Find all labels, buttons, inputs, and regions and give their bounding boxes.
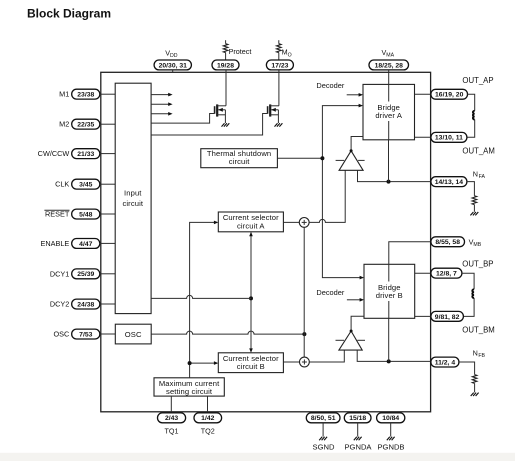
pin pill OUT_BM 9/81,82 bbox=[431, 311, 464, 321]
ground PGNDB bbox=[387, 437, 395, 440]
pin label OSC bbox=[53, 330, 69, 339]
label OUT_BM bbox=[462, 326, 495, 335]
svg-text:3/45: 3/45 bbox=[79, 182, 92, 189]
comparator B bbox=[336, 331, 366, 350]
wire OUT_AM bbox=[415, 136, 431, 138]
svg-text:5/48: 5/48 bbox=[79, 211, 92, 218]
svg-text:22/35: 22/35 bbox=[77, 122, 94, 129]
svg-text:PGNDB: PGNDB bbox=[377, 443, 404, 452]
svg-text:Decoder: Decoder bbox=[316, 288, 344, 297]
label SGND bbox=[313, 443, 335, 452]
resistor protect pull-up bbox=[223, 40, 228, 60]
pin pill Protect 19/28 bbox=[212, 60, 239, 70]
svg-text:20/30, 31: 20/30, 31 bbox=[159, 62, 188, 69]
pin pill OUT_AM 13/10,11 bbox=[431, 132, 467, 142]
comparator A bbox=[336, 151, 365, 171]
wire selector B out bbox=[283, 361, 299, 363]
pin label M1 bbox=[59, 90, 69, 99]
wire thermal output bbox=[277, 157, 322, 159]
ground PGNDA bbox=[354, 437, 362, 440]
arrow decoder A bbox=[347, 93, 363, 97]
pin pill VMA 18/25,28 bbox=[369, 60, 409, 70]
label OUT_AM bbox=[462, 147, 495, 156]
svg-text:CW/CCW: CW/CCW bbox=[38, 149, 70, 158]
block current selector circuit B bbox=[218, 353, 283, 373]
node thermal junction bbox=[320, 156, 324, 160]
svg-text:19/28: 19/28 bbox=[217, 62, 234, 69]
svg-text:OSC: OSC bbox=[125, 330, 142, 339]
wire summing A to B bbox=[303, 227, 305, 357]
footer strip bbox=[0, 453, 515, 461]
wire CLK to input bbox=[100, 183, 115, 185]
wire OUT_AP bbox=[415, 93, 431, 95]
svg-text:15/18: 15/18 bbox=[349, 415, 366, 422]
svg-text:setting circuit: setting circuit bbox=[166, 387, 213, 396]
wire DCY select line bbox=[249, 232, 253, 353]
pin pill OUT_AP 16/19,20 bbox=[431, 89, 468, 99]
wire bridge B sense bbox=[388, 318, 390, 361]
label NFA bbox=[473, 169, 486, 180]
wire control to bridges bbox=[322, 104, 364, 280]
svg-text:TQ1: TQ1 bbox=[165, 427, 179, 436]
label PGNDB bbox=[377, 443, 404, 452]
pin pill NFA 14/13,14 bbox=[431, 177, 467, 187]
pin label CW/CCW bbox=[38, 149, 70, 158]
wire MO drain bbox=[278, 70, 280, 106]
wire comparator A out bbox=[350, 137, 363, 153]
pin pill VMB 8/55,58 bbox=[431, 237, 465, 247]
wire M2 to input bbox=[100, 123, 115, 125]
motor load A bbox=[467, 94, 475, 137]
svg-text:O: O bbox=[288, 52, 292, 58]
svg-text:4/47: 4/47 bbox=[79, 241, 92, 248]
pin pill ENABLE 4/47 bbox=[72, 239, 100, 249]
svg-text:2/43: 2/43 bbox=[165, 415, 178, 422]
label bridge driver A bbox=[373, 102, 405, 122]
summing node B bbox=[300, 357, 310, 367]
wire VMB through bridge B bbox=[388, 264, 390, 318]
svg-text:circuit: circuit bbox=[229, 157, 250, 166]
svg-text:circuit: circuit bbox=[122, 199, 143, 208]
svg-text:OUT_AM: OUT_AM bbox=[462, 147, 495, 156]
arrow input bus 2 bbox=[151, 102, 173, 106]
svg-text:7/53: 7/53 bbox=[79, 331, 92, 338]
svg-text:17/23: 17/23 bbox=[271, 62, 288, 69]
wire CW/CCW to input bbox=[100, 153, 115, 155]
svg-text:14/13, 14: 14/13, 14 bbox=[435, 179, 464, 186]
svg-text:DCY2: DCY2 bbox=[50, 300, 69, 309]
pin pill PGNDB 10/84 bbox=[377, 413, 405, 423]
wire RESET to input bbox=[100, 213, 115, 215]
wire Protect drain bbox=[225, 70, 227, 106]
svg-text:18/25, 28: 18/25, 28 bbox=[375, 62, 404, 69]
arrow input bus 1 bbox=[151, 93, 173, 97]
label OUT_AP bbox=[462, 76, 493, 85]
svg-text:16/19, 20: 16/19, 20 bbox=[435, 92, 464, 99]
svg-text:M2: M2 bbox=[59, 120, 69, 129]
block bridge driver B bbox=[364, 264, 415, 318]
pin pill M1 23/38 bbox=[72, 89, 100, 99]
svg-text:DCY1: DCY1 bbox=[50, 269, 69, 278]
wire summing B to comparator B bbox=[309, 350, 344, 362]
svg-text:21/33: 21/33 bbox=[77, 151, 94, 158]
wire comparator A feedback bbox=[358, 170, 431, 181]
pin pill NFB 11/2,4 bbox=[431, 357, 459, 367]
wire comparator B feedback bbox=[357, 350, 431, 361]
motor load B bbox=[462, 273, 474, 316]
wire VDD stub bbox=[172, 70, 174, 72]
transistor Q1 (Protect output) bbox=[215, 104, 230, 126]
svg-text:Input: Input bbox=[124, 188, 142, 197]
svg-text:PGNDA: PGNDA bbox=[344, 443, 372, 452]
label VMA bbox=[382, 48, 395, 59]
label OUT_BP bbox=[462, 260, 493, 269]
ground SGND bbox=[319, 437, 327, 440]
pin pill TQ2 1/42 bbox=[194, 413, 222, 423]
svg-text:8/55, 58: 8/55, 58 bbox=[435, 239, 460, 246]
svg-text:OUT_AP: OUT_AP bbox=[462, 76, 493, 85]
wire VMB to bridge B bbox=[389, 242, 431, 265]
svg-text:12/8, 7: 12/8, 7 bbox=[436, 271, 457, 278]
svg-text:13/10, 11: 13/10, 11 bbox=[435, 135, 463, 142]
svg-text:circuit A: circuit A bbox=[237, 221, 265, 230]
svg-text:RESET: RESET bbox=[45, 210, 70, 219]
wire comparator B out bbox=[350, 316, 364, 332]
pin pill OUT_BP 12/8,7 bbox=[431, 268, 462, 278]
pin pill SGND 8/50,51 bbox=[306, 413, 340, 423]
svg-text:MB: MB bbox=[473, 242, 481, 248]
pin pill PGNDA 15/18 bbox=[344, 413, 371, 423]
pin pill DCY1 25/39 bbox=[72, 269, 100, 279]
wire Q1 gate bbox=[151, 114, 215, 124]
summing node A bbox=[299, 218, 309, 228]
svg-text:24/38: 24/38 bbox=[77, 301, 94, 308]
wire DCY1 to input bbox=[100, 273, 115, 275]
svg-text:23/38: 23/38 bbox=[77, 92, 94, 99]
wire M1 to input bbox=[100, 93, 115, 95]
wire DCY2 line bbox=[151, 295, 251, 298]
resistor RNFA bbox=[467, 182, 477, 212]
wire SGND stem bbox=[322, 423, 324, 437]
label Protect bbox=[229, 47, 252, 56]
resistor MO pull-up bbox=[276, 40, 281, 60]
block maximum current setting circuit bbox=[154, 378, 224, 396]
pin label RESET bbox=[44, 210, 69, 219]
label VDD bbox=[165, 48, 178, 59]
svg-text:1/42: 1/42 bbox=[201, 415, 214, 422]
svg-text:OUT_BP: OUT_BP bbox=[462, 260, 493, 269]
IC outline bbox=[101, 72, 431, 412]
transistor Q2 (MO output) bbox=[268, 104, 283, 126]
svg-text:OUT_BM: OUT_BM bbox=[462, 326, 495, 335]
label TQ2 bbox=[201, 427, 215, 436]
svg-text:SGND: SGND bbox=[313, 443, 335, 452]
svg-text:MA: MA bbox=[386, 53, 394, 59]
wire summing A to comparator A bbox=[309, 170, 345, 222]
node DCY junction bbox=[249, 296, 253, 300]
wire ENABLE to input bbox=[100, 242, 115, 244]
block bridge driver A bbox=[363, 84, 415, 139]
svg-text:25/39: 25/39 bbox=[77, 271, 94, 278]
svg-text:Block Diagram: Block Diagram bbox=[27, 7, 111, 21]
svg-text:FA: FA bbox=[479, 174, 486, 180]
wire DCY2 to input bbox=[100, 303, 115, 305]
label NFB bbox=[473, 348, 486, 359]
block input circuit bbox=[115, 83, 151, 313]
wire TQ2 stub bbox=[207, 396, 209, 412]
svg-text:circuit B: circuit B bbox=[237, 362, 265, 371]
pin label DCY2 bbox=[50, 300, 69, 309]
node NFB junction bbox=[387, 359, 391, 363]
pin label CLK bbox=[55, 180, 69, 189]
label MO bbox=[282, 48, 292, 59]
label bridge driver B bbox=[373, 282, 405, 302]
resistor RNFB bbox=[459, 362, 477, 392]
label Decoder B bbox=[316, 288, 344, 297]
pin pill RESET 5/48 bbox=[72, 209, 100, 219]
wire OSC to input bbox=[100, 333, 115, 335]
pin pill DCY2 24/38 bbox=[72, 299, 100, 309]
svg-text:N: N bbox=[473, 348, 478, 357]
svg-text:DD: DD bbox=[170, 53, 178, 59]
svg-text:driver B: driver B bbox=[376, 291, 403, 300]
pin pill OSC 7/53 bbox=[72, 329, 100, 339]
svg-text:Protect: Protect bbox=[229, 47, 252, 56]
pin pill CLK 3/45 bbox=[72, 179, 100, 189]
ground NFA bbox=[470, 212, 478, 215]
node max current junction bbox=[188, 361, 192, 365]
svg-text:TQ2: TQ2 bbox=[201, 427, 215, 436]
pin label DCY1 bbox=[50, 269, 69, 278]
svg-text:Decoder: Decoder bbox=[316, 81, 344, 90]
wire PGNDA stem bbox=[357, 423, 359, 437]
wire Q2 gate bbox=[151, 114, 268, 136]
svg-text:FB: FB bbox=[478, 353, 485, 359]
pin pill VDD 20/30,31 bbox=[154, 60, 191, 70]
title bbox=[27, 7, 111, 21]
svg-text:9/81, 82: 9/81, 82 bbox=[435, 314, 460, 321]
node OSC junction bbox=[302, 332, 306, 336]
svg-text:11/2, 4: 11/2, 4 bbox=[435, 359, 456, 366]
arrow decoder B bbox=[347, 298, 364, 302]
arrow max current to selector B bbox=[190, 361, 219, 365]
wire max current to selector A bbox=[190, 221, 219, 378]
pin pill M2 22/35 bbox=[72, 119, 100, 129]
pin pill TQ1 2/43 bbox=[158, 413, 186, 423]
svg-text:M1: M1 bbox=[59, 90, 69, 99]
wire VMA through bridge A bbox=[388, 84, 390, 139]
wire OUT_BP bbox=[415, 272, 431, 274]
svg-text:driver A: driver A bbox=[375, 111, 403, 120]
wire VMA to bridge A bbox=[388, 70, 390, 85]
pin pill CW/CCW 21/33 bbox=[72, 149, 100, 159]
wire OSC line bbox=[151, 331, 304, 334]
label Decoder A bbox=[316, 81, 344, 90]
ground NFB bbox=[471, 393, 479, 396]
block thermal shutdown circuit bbox=[201, 149, 278, 168]
arrow input bus 3 bbox=[151, 112, 173, 116]
wire bridge A sense bbox=[388, 140, 390, 182]
label PGNDA bbox=[344, 443, 372, 452]
svg-text:CLK: CLK bbox=[55, 180, 69, 189]
svg-text:N: N bbox=[473, 169, 478, 178]
wire selector A out bbox=[283, 221, 299, 223]
pin label ENABLE bbox=[41, 239, 70, 248]
block OSC bbox=[115, 324, 151, 344]
svg-text:10/84: 10/84 bbox=[382, 415, 399, 422]
wire PGNDB stem bbox=[390, 423, 392, 437]
svg-text:OSC: OSC bbox=[53, 330, 69, 339]
pin pill MO 17/23 bbox=[266, 60, 293, 70]
svg-text:ENABLE: ENABLE bbox=[41, 239, 70, 248]
svg-text:8/50, 51: 8/50, 51 bbox=[311, 415, 336, 422]
node NFA junction bbox=[387, 180, 391, 184]
block current selector circuit A bbox=[218, 212, 283, 232]
pin label M2 bbox=[59, 120, 69, 129]
label VMB bbox=[469, 237, 482, 248]
wire TQ1 stub bbox=[170, 396, 172, 412]
label TQ1 bbox=[165, 427, 179, 436]
wire OUT_BM bbox=[415, 315, 431, 317]
